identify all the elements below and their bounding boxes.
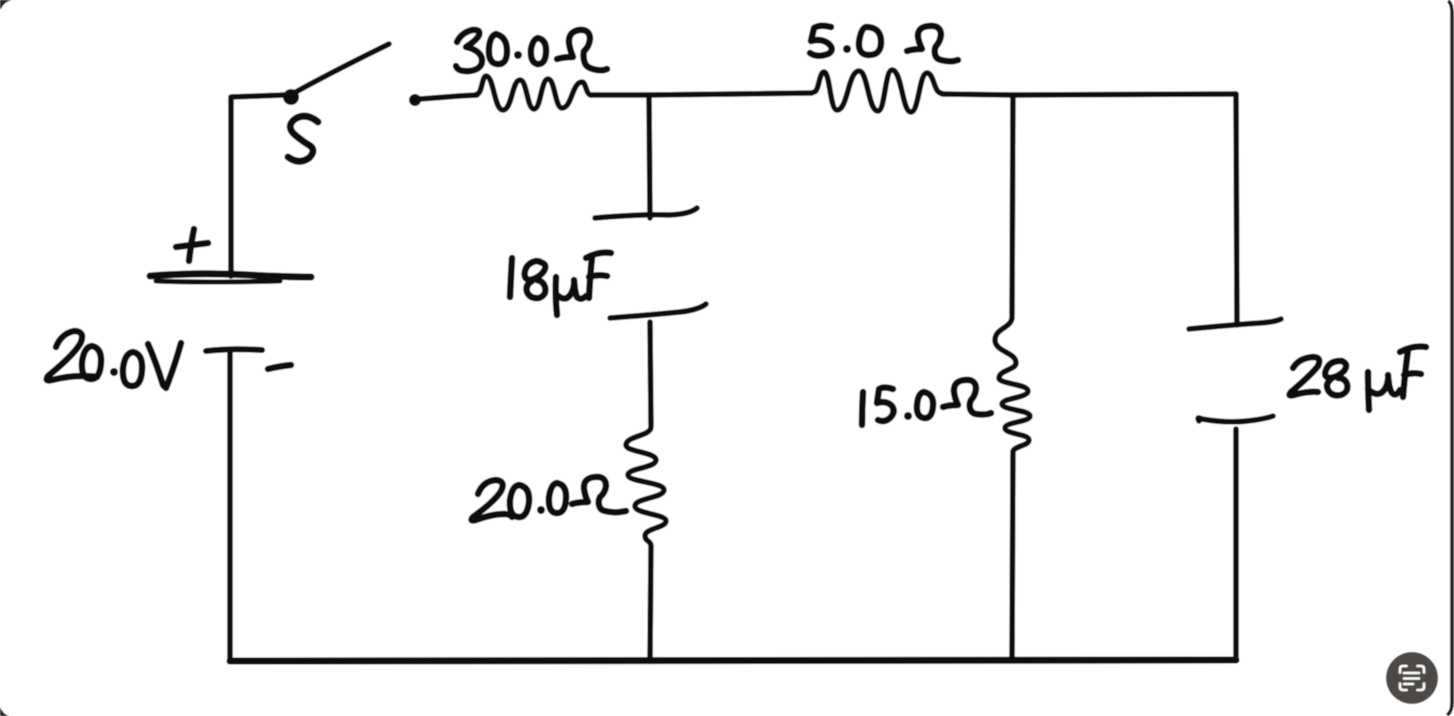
switch S pivot dot <box>283 89 299 105</box>
switch S blade <box>294 44 389 93</box>
label 20.0V digit 2 <box>47 331 97 381</box>
corner mark bottom-left <box>0 707 9 716</box>
battery V1 positive plate second stroke <box>156 281 280 282</box>
label 18uF digit 8 <box>525 261 546 298</box>
scan icon bracket top-right <box>1418 666 1425 673</box>
wire switch terminal to resistor R1 <box>420 95 477 99</box>
wire R3 to bottom wire <box>650 546 651 660</box>
label 20.0V digit 0 <box>123 352 142 386</box>
label 28uF digit 2 <box>1290 357 1320 396</box>
capacitor C1 top plate <box>595 208 697 218</box>
scan icon bracket top-left <box>1400 666 1407 673</box>
label 5.0 ohm omega <box>907 26 958 61</box>
label 28uF letter mu <box>1368 372 1369 410</box>
capacitor C2 top plate <box>1189 319 1281 329</box>
battery V1 negative plate <box>206 349 262 351</box>
label 20.0 ohm digit 2 <box>472 480 512 521</box>
resistor R3 20.0 ohm vertical zigzag <box>626 427 666 546</box>
label 5.0 ohm digit 5 <box>810 26 832 56</box>
label 15.0 ohm dot <box>904 412 912 420</box>
label 30.0 ohm digit 0 <box>489 34 507 64</box>
bottom wire <box>230 660 1236 661</box>
capacitor C2 bottom plate <box>1198 416 1273 422</box>
label 20.0V dot <box>110 368 118 376</box>
label + battery positive <box>176 243 208 247</box>
label 20.0 ohm digit 0 <box>549 483 566 513</box>
label 20.0 ohm digit 0 <box>510 485 529 517</box>
wire node A down to capacitor C1 <box>649 95 650 218</box>
label 15.0 ohm digit 5 <box>877 388 894 422</box>
label 18uF digit 1 <box>510 258 512 297</box>
label - battery negative <box>268 365 291 369</box>
resistor R2 5.0 ohm zigzag <box>814 70 941 112</box>
scan button <box>1386 652 1438 704</box>
label 20.0V digit 0 <box>82 346 101 379</box>
wire C1 to resistor R3 <box>650 322 651 425</box>
label 30.0 ohm digit 3 <box>456 30 482 71</box>
label 15.0 ohm digit 1 <box>862 392 863 425</box>
switch S open terminal dot <box>409 94 421 106</box>
wire R4 to bottom wire <box>1012 452 1013 660</box>
capacitor C1 bottom plate <box>610 304 706 318</box>
wire R2 to node B and top-right corner <box>942 94 1236 95</box>
scan icon line 1 <box>1404 672 1419 675</box>
label 20.0 ohm omega <box>572 477 626 512</box>
label 20.0 ohm dot <box>537 506 545 514</box>
label 5.0 ohm dot <box>843 45 851 53</box>
label 30.0 ohm digit 0 <box>531 38 546 64</box>
label 18uF letter mu <box>556 277 557 315</box>
label 15.0 ohm digit 0 <box>917 392 933 418</box>
corner mark top-left <box>0 0 12 9</box>
label 18uF letter F <box>589 257 592 298</box>
page edge line right <box>1447 1 1452 715</box>
label 28uF digit 8 <box>1325 361 1347 395</box>
resistor R1 30.0 ohm zigzag <box>477 76 591 110</box>
wire C2 to bottom-right corner <box>1233 429 1239 660</box>
wire battery negative down to bottom-left corner <box>227 352 233 661</box>
resistor R4 15.0 ohm vertical zigzag <box>995 317 1030 452</box>
wire top-right corner down to capacitor C2 <box>1236 94 1237 325</box>
wire R1 to node A <box>591 92 649 98</box>
scan icon line 2 <box>1404 677 1419 680</box>
label S for switch <box>288 116 318 161</box>
label 30.0 ohm dot <box>514 51 522 59</box>
scan icon bracket bottom-right <box>1418 684 1425 691</box>
label 15.0 ohm omega <box>943 380 991 415</box>
wire left vertical top (battery + to switch corner) <box>231 95 284 276</box>
label 20.0V letter V <box>148 343 181 388</box>
node A junction to wire toward R2 <box>649 93 812 95</box>
label 28uF letter F <box>1403 350 1408 397</box>
label 30.0 ohm omega <box>557 30 607 70</box>
wire node B down to resistor R4 <box>1012 95 1013 315</box>
scan icon bracket bottom-left <box>1400 684 1407 691</box>
scan icon line 3 <box>1404 683 1413 686</box>
label 5.0 ohm digit 0 <box>859 27 881 55</box>
battery V1 positive plate <box>150 274 311 277</box>
